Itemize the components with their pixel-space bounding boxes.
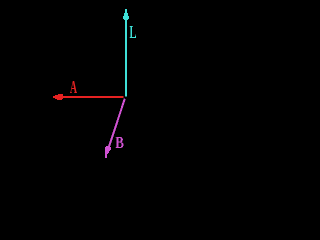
wire: vector A shaft (red, horizontal): [61, 96, 124, 98]
wire: vector L shaft (cyan, vertical): [125, 17, 127, 97]
node L label: [129, 26, 136, 38]
arrowhead of vector B: [105, 146, 111, 158]
vector diagram: [0, 0, 250, 188]
arrowhead of vector L: [123, 9, 129, 20]
wire: vector B shaft (magenta, down-left): [108, 99, 125, 149]
node A label: [70, 81, 77, 93]
node B label: [116, 137, 124, 148]
arrowhead of vector A: [53, 94, 63, 100]
